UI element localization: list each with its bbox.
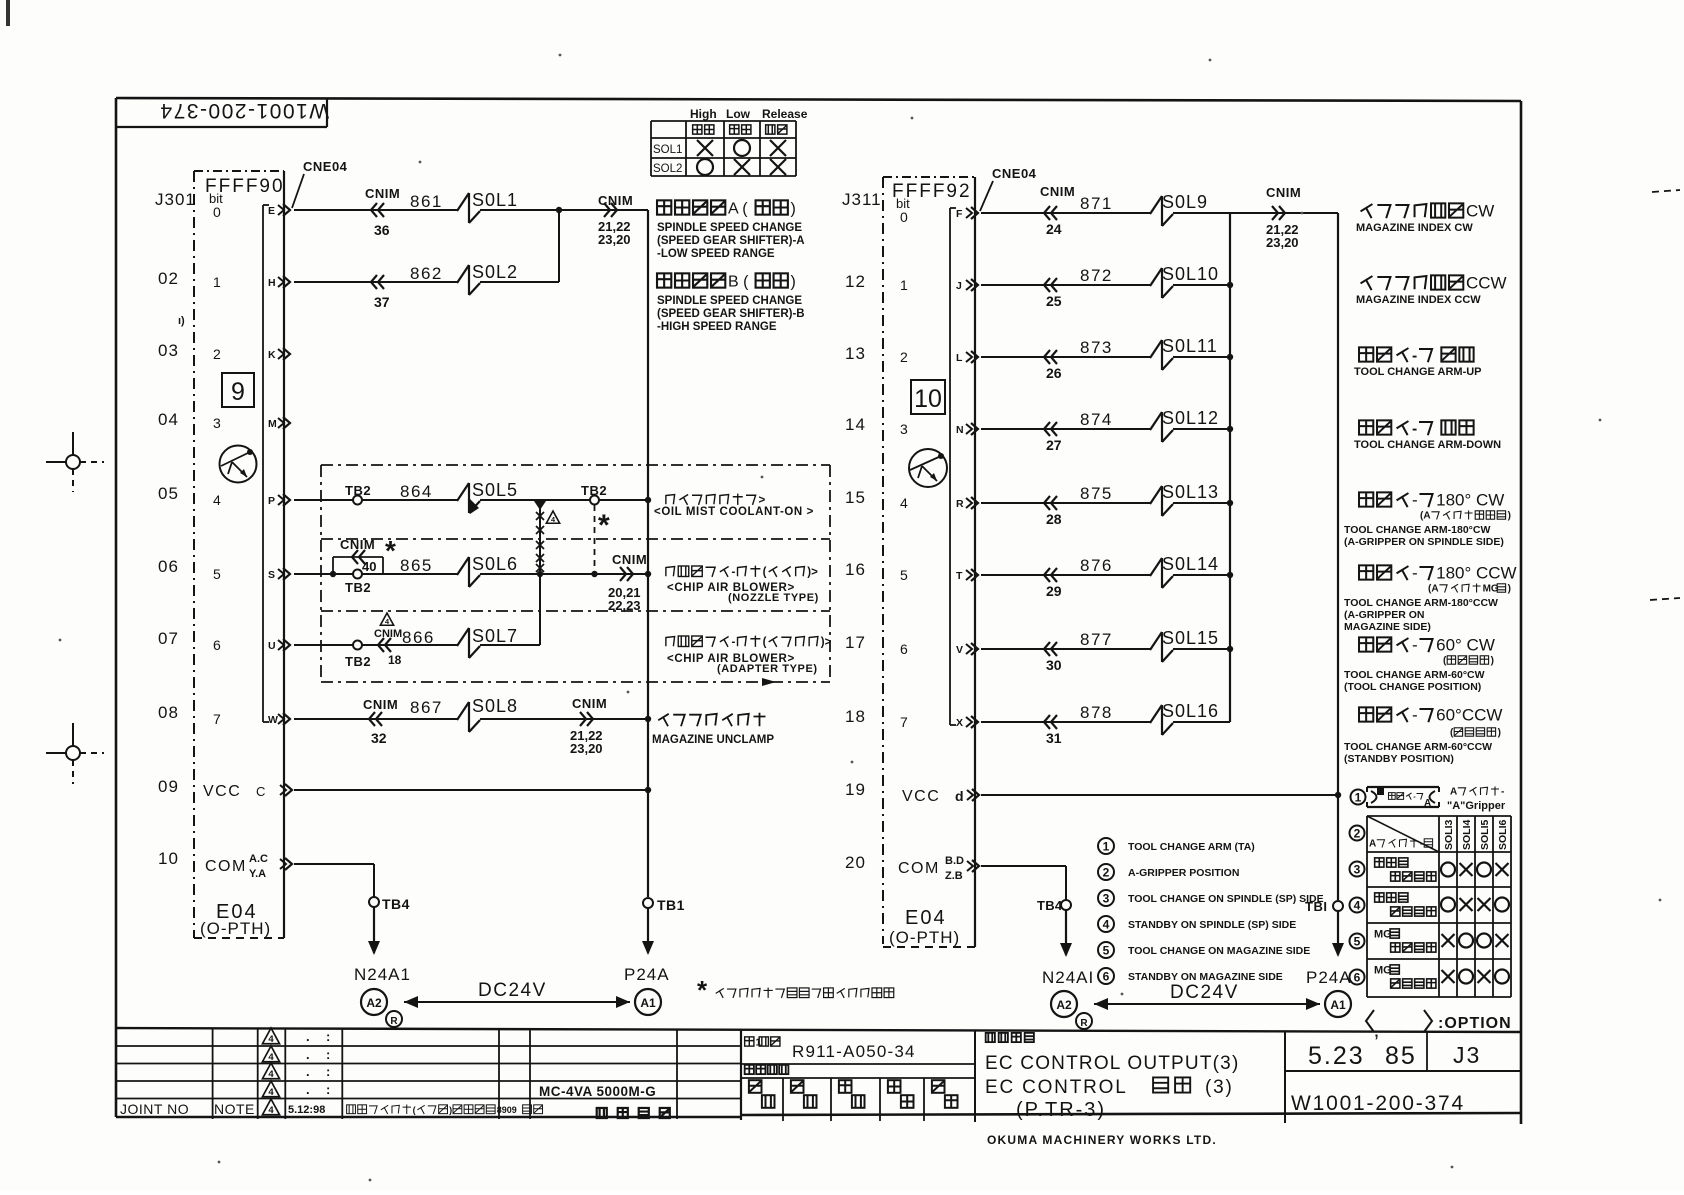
svg-text:SOL1: SOL1 [653,144,682,156]
pin W J301 [268,713,290,726]
svg-text:SOLI3: SOLI3 [1443,819,1455,850]
svg-text:E04: E04 [905,907,947,929]
svg-text:B.D: B.D [945,855,964,867]
solenoid SOL1 [457,190,518,223]
svg-text:40: 40 [362,559,376,574]
revision triangles [262,1028,330,1116]
node SOL6 stub [330,571,336,577]
svg-text:K: K [268,349,276,361]
svg-text:TOOL CHANGE ON MAGAZINE SIDE: TOOL CHANGE ON MAGAZINE SIDE [1128,945,1310,957]
svg-text:37: 37 [374,294,390,310]
label SOL2 spindle speed change B [657,273,805,333]
svg-text:877: 877 [1080,630,1113,649]
node SOL8-rail [645,716,651,722]
svg-text:875: 875 [1080,484,1113,503]
solenoid SOL11 [1150,336,1218,370]
svg-text:Low: Low [726,107,751,121]
terminal TB1 (left) [643,897,685,913]
terminal A2 (left) [361,989,387,1015]
wire SOL10 to rail [1173,282,1233,288]
svg-text:-: - [1420,839,1423,850]
pin P J301 [268,494,290,507]
wire pin to SOL10 [981,284,1150,286]
svg-text:EC CONTROL: EC CONTROL [985,1077,1128,1098]
solenoid SOL9 [1150,192,1208,226]
svg-text:180° CCW: 180° CCW [1436,563,1516,582]
option box (oil mist / chip air blower) [321,465,830,686]
svg-text:High: High [690,107,717,121]
svg-text:OKUMA MACHINERY WORKS LTD.: OKUMA MACHINERY WORKS LTD. [987,1133,1217,1147]
svg-text:3: 3 [1103,891,1110,905]
svg-text:CCW: CCW [1466,273,1507,292]
svg-text:SPINDLE SPEED CHANGE: SPINDLE SPEED CHANGE [657,295,802,307]
label SOL1 spindle speed change A [657,200,805,260]
pin E J301 [268,204,290,217]
terminal TB2 (SOL6) [345,570,371,596]
wire number 866 [402,628,435,647]
svg-text:CNIM: CNIM [363,697,398,712]
svg-text:5.12:98: 5.12:98 [288,1104,325,1116]
svg-text:E: E [268,205,275,217]
connector mark CNIM 24 (SOL9) [1040,184,1075,237]
svg-text:TOOL CHANGE ARM (TA): TOOL CHANGE ARM (TA) [1128,841,1255,853]
solenoid SOL16 [1150,701,1219,735]
connector J301 label [155,190,196,209]
svg-text:(O-PTH): (O-PTH) [200,919,271,938]
svg-text:STANDBY ON SPINDLE (SP) SIDE: STANDBY ON SPINDLE (SP) SIDE [1128,919,1296,931]
svg-text:A: A [1450,787,1457,798]
svg-text:6: 6 [900,641,908,657]
wire number 872 [1080,266,1113,285]
connector mark CNIM 40 (SOL6 aux) [333,535,396,574]
label SOL12 arm down [1354,420,1501,451]
svg-text:): ) [1508,584,1511,595]
wire TB1 to P24A arrow (right) [1332,911,1344,957]
connector key symbol (right) [909,449,947,487]
svg-text:4: 4 [268,1087,274,1098]
net N24A1 (right) [1042,968,1094,987]
node SOL5-rail [645,497,651,503]
wire SOL12 to rail [1173,426,1233,432]
svg-text:1: 1 [900,277,908,293]
svg-text:J3: J3 [1453,1042,1481,1068]
svg-text:DC24V: DC24V [478,980,547,1001]
svg-text:6: 6 [1103,969,1110,983]
pin H J301 [268,276,290,289]
svg-text::: : [326,1047,330,1062]
svg-text:>: > [759,495,766,507]
svg-text:Release: Release [762,107,808,121]
svg-text:): ) [791,200,796,217]
wire pin to SOL12 [981,428,1150,430]
svg-text:(SPEED GEAR SHIFTER)-B: (SPEED GEAR SHIFTER)-B [657,308,805,320]
wire SOL9 to rail [1173,212,1230,214]
svg-text:60° CW: 60° CW [1436,635,1495,654]
connector J311 label [842,190,882,209]
crossover marks x (SOL5-SOL6 tie) [534,501,546,645]
svg-text:TOOL CHANGE ARM-60°CW: TOOL CHANGE ARM-60°CW [1344,669,1485,681]
svg-text:871: 871 [1080,194,1113,213]
svg-text:A2: A2 [1056,998,1072,1012]
svg-text:2: 2 [213,346,221,362]
connector mark CNIM 20,21/22,23 (SOL6 out) [608,552,647,613]
connector block FFFF92 / E04 (O-PTH) right [883,177,975,947]
svg-text:-: - [1412,635,1418,654]
svg-text:(A: (A [1420,511,1431,522]
svg-text:23,20: 23,20 [570,741,603,756]
pin S J301 [268,568,290,581]
svg-text:*: * [697,975,708,1005]
svg-text:7: 7 [900,714,908,730]
terminal TB1 (right) [1305,899,1343,914]
svg-text:1: 1 [213,274,221,290]
rail P24A (right) [1335,213,1341,900]
connector mark CNIM 21,22/23,20 (right out) [1230,185,1338,250]
svg-text:SOLI4: SOLI4 [1461,819,1473,850]
svg-text:Z.B: Z.B [945,870,963,882]
pin J J311 [956,279,978,292]
svg-text:MG: MG [1374,928,1392,940]
svg-text:R911-A050-34: R911-A050-34 [792,1042,916,1061]
svg-text:COM: COM [205,858,247,875]
wire number 873 [1080,338,1113,357]
pin K J301 [268,348,290,361]
svg-text:MG: MG [1374,964,1392,976]
wire pin to SOL13 [981,502,1150,504]
mark (1) near J301 box [178,315,185,327]
svg-text:): ) [1508,511,1511,522]
svg-text:-HIGH SPEED RANGE: -HIGH SPEED RANGE [657,321,777,333]
svg-text:S0L11: S0L11 [1162,336,1218,356]
svg-text:-: - [1412,490,1418,509]
svg-text:.: . [306,1029,310,1044]
svg-text:5: 5 [1103,943,1110,957]
wire pin to SOL14 [981,574,1150,576]
svg-text:4: 4 [268,1034,274,1045]
registration mark left upper [46,432,104,492]
svg-text:)>: )> [821,637,832,649]
wire pin to SOL11 [981,356,1150,358]
drawing title cell [985,1031,1285,1123]
solenoid SOL6 [457,554,518,587]
svg-text:MG: MG [1483,584,1499,595]
svg-text:60°CCW: 60°CCW [1436,705,1502,724]
svg-text:(: ( [413,1105,416,1115]
sheet number 9 box [222,373,254,407]
wire SOL7 to crossover [480,644,540,646]
svg-text:-: - [732,637,736,649]
svg-text:CNIM: CNIM [340,537,375,552]
svg-text:17: 17 [845,633,866,652]
svg-text:A2: A2 [366,996,382,1010]
svg-text:CNIM: CNIM [365,186,400,201]
svg-text:TOOL CHANGE ARM-180°CCW: TOOL CHANGE ARM-180°CCW [1344,597,1498,609]
svg-text:S0L14: S0L14 [1162,554,1219,574]
svg-text:18: 18 [845,707,866,726]
svg-text:5: 5 [900,567,908,583]
solenoid SOL15 [1150,628,1219,662]
wire number 861 [410,192,443,211]
label SOL5 oil mist [654,494,814,518]
svg-text:02: 02 [158,269,179,288]
revision note row [120,1101,543,1117]
node SOL1/SOL2 junction [556,207,562,213]
svg-text:-LOW SPEED RANGE: -LOW SPEED RANGE [657,248,775,260]
date / sheet cell [1285,1030,1521,1071]
solenoid SOL7 [457,626,518,658]
rail P24A (left) [647,210,649,897]
svg-text:A-GRIPPER POSITION: A-GRIPPER POSITION [1128,867,1239,879]
svg-text:08: 08 [158,703,179,722]
wire pin H to SOL2 [294,281,457,283]
scan artifact top-left [6,0,10,26]
node SOL6 TB2-dash [591,571,597,577]
svg-text:85: 85 [1385,1042,1417,1070]
svg-text:S0L15: S0L15 [1162,628,1219,648]
svg-text:32: 32 [371,730,387,746]
svg-text:TB4: TB4 [382,896,410,912]
svg-text:NOTE: NOTE [214,1101,255,1117]
note asterisk oil-mist (bottom) [697,975,894,1005]
left row number 02 [158,269,179,868]
pin bracket J301 [263,205,269,722]
svg-text:16: 16 [845,560,866,579]
wire SOL15 to rail [1173,646,1233,652]
wire number 875 [1080,484,1113,503]
svg-text:CNIM: CNIM [598,193,633,208]
svg-text:06: 06 [158,557,179,576]
svg-text:31: 31 [1046,730,1062,746]
svg-text:TOOL CHANGE ARM-60°CCW: TOOL CHANGE ARM-60°CCW [1344,741,1492,753]
svg-text:(ADAPTER TYPE): (ADAPTER TYPE) [717,663,818,675]
svg-text:20: 20 [845,853,866,872]
svg-text:5: 5 [1354,934,1361,948]
svg-text:VCC: VCC [203,783,241,800]
svg-text:S0L13: S0L13 [1162,482,1219,502]
svg-text:4: 4 [1354,898,1361,912]
label CNE04 (right) [980,166,1037,211]
svg-text:CNE04: CNE04 [303,159,348,174]
label SOL16 arm 60 CCW [1344,705,1502,765]
svg-text:-: - [1412,347,1417,364]
svg-text:A.C: A.C [249,853,268,865]
registration dash right lower [1650,598,1680,600]
terminal A2 (right) [1051,991,1077,1017]
svg-text:27: 27 [1046,437,1062,453]
wire number 865 [400,556,433,575]
svg-text:N24A1: N24A1 [354,965,411,984]
connector block FFFF90 / E04 (O-PTH) [194,171,285,938]
connector mark CNIM 30 (SOL15) [1044,642,1062,673]
node SOL6 crossover [537,571,543,577]
pin M J301 [268,417,290,430]
svg-text:23,20: 23,20 [1266,235,1299,250]
svg-text:): ) [449,1105,452,1115]
sheet number 10 box [911,380,945,414]
svg-text:ı): ı) [178,315,185,327]
svg-text:TOOL CHANGE ARM-UP: TOOL CHANGE ARM-UP [1354,366,1482,378]
circled row numbers 2-6 [1350,826,1365,985]
svg-text:N: N [956,424,964,436]
gripper symbol A-gripper (note 1) [1351,787,1506,813]
svg-text:09: 09 [158,777,179,796]
svg-text:V: V [956,644,963,656]
terminal A1 (left) [635,989,661,1015]
terminal R (right) [1076,1013,1092,1029]
svg-text:N24AI: N24AI [1042,968,1094,987]
svg-text:0: 0 [900,209,908,225]
svg-text:4: 4 [1103,917,1110,931]
connector key symbol (left) [220,446,257,483]
svg-text:TB1: TB1 [657,897,685,913]
wire SOL11 to rail [1173,354,1233,360]
wire VCC d to rail (right) [981,794,1338,796]
svg-text::OPTION: :OPTION [1438,1015,1512,1032]
svg-text:J: J [956,280,962,292]
svg-text:3: 3 [1354,862,1361,876]
svg-text:CNIM: CNIM [1266,185,1301,200]
net P24A (right) [1306,968,1352,987]
pin A.C/Y.A (COM) J301 [280,858,292,870]
svg-text:10: 10 [914,385,942,413]
connector mark CNIM 18 (SOL7) [374,628,402,667]
svg-text:P: P [268,495,275,507]
svg-text:<OIL MIST COOLANT-ON >: <OIL MIST COOLANT-ON > [654,506,814,518]
svg-text:(: ( [763,567,767,579]
svg-text:L: L [956,352,963,364]
svg-text:1: 1 [1103,839,1110,853]
svg-text:865: 865 [400,556,433,575]
svg-text:’: ’ [1374,1030,1379,1055]
svg-text:*: * [385,535,396,566]
svg-text:(A-GRIPPER ON: (A-GRIPPER ON [1344,609,1425,621]
svg-text:H: H [268,277,276,289]
svg-text:-: - [1501,787,1504,798]
label DC24V (right) [1094,982,1320,1010]
solenoid SOL8 [457,696,518,732]
label SOL11 arm up [1354,347,1482,378]
wire SOL2 to SOL1 junction [480,210,559,282]
part number cell R911-A050-34 [741,1037,975,1078]
asterisk note (oil mist) [598,509,610,542]
svg-text::: : [326,1082,330,1097]
registration mark left lower [46,723,104,784]
pin d (VCC) J311 [967,789,979,801]
svg-text:CNE04: CNE04 [992,166,1037,181]
solenoid SOL13 [1150,482,1219,516]
svg-text:EC CONTROL OUTPUT(3): EC CONTROL OUTPUT(3) [985,1053,1239,1074]
svg-text:6: 6 [1354,970,1361,984]
svg-text:3: 3 [900,421,908,437]
wire number 876 [1080,556,1113,575]
svg-text:5: 5 [213,566,221,582]
svg-text:S0L16: S0L16 [1162,701,1219,721]
svg-text:): ) [1491,656,1494,667]
svg-text:(SPEED GEAR SHIFTER)-A: (SPEED GEAR SHIFTER)-A [657,235,805,247]
wire number 878 [1080,703,1113,722]
svg-text:.: . [306,1047,310,1062]
svg-text:36: 36 [374,222,390,238]
svg-text:VCC: VCC [902,788,940,805]
wire number 867 [410,698,443,717]
wire pin to SOL16 [981,721,1150,723]
drawing number box W1001-200-374 (rotated) [116,98,329,127]
wire SOL8 to rail [480,718,648,720]
applicable machine cell [539,1084,670,1118]
svg-text:CW: CW [1466,201,1494,220]
svg-text:S0L2: S0L2 [472,262,518,282]
svg-text:(A-GRIPPER ON SPINDLE SIDE): (A-GRIPPER ON SPINDLE SIDE) [1344,536,1504,548]
svg-text:(NOZZLE TYPE): (NOZZLE TYPE) [728,592,819,604]
svg-text:S0L7: S0L7 [472,626,518,646]
svg-text:861: 861 [410,192,443,211]
svg-text:867: 867 [410,698,443,717]
svg-text:29: 29 [1046,583,1062,599]
svg-text:TB2: TB2 [345,580,371,595]
connector mark CNIM 27 (SOL12) [1044,422,1062,453]
svg-text:C: C [256,784,265,799]
svg-text:.: . [306,1064,310,1079]
svg-text:U: U [268,640,276,652]
svg-text:23,20: 23,20 [598,232,631,247]
svg-text:J311: J311 [842,190,882,209]
svg-text:S0L6: S0L6 [472,554,518,574]
svg-text:A: A [1424,798,1431,809]
connector mark CNIM 31 (SOL16) [1044,715,1062,746]
svg-text:MAGAZINE UNCLAMP: MAGAZINE UNCLAMP [652,734,774,746]
svg-text:d: d [955,788,964,804]
note 5 TOOL CHANGE ON MAGAZINE SIDE [1098,942,1310,958]
svg-text:15: 15 [845,488,866,507]
title block grid [116,1028,1521,1120]
svg-text:JOINT NO: JOINT NO [120,1101,189,1117]
svg-text:COM: COM [898,860,940,877]
svg-text:8909: 8909 [497,1105,517,1115]
bus rail SOL9-SOL16 [1229,213,1231,722]
solenoid SOL10 [1150,264,1219,298]
label SOL13 arm 180 CW [1344,490,1511,548]
svg-text::: : [326,1029,330,1044]
svg-text:13: 13 [845,344,866,363]
label SOL14 arm 180 CCW [1344,563,1517,633]
net N24A1 (left) [354,965,411,984]
svg-text:X: X [956,717,963,729]
pin L J311 [956,351,978,364]
note 3 TOOL CHANGE ON SPINDLE (SP) SIDE [1098,890,1324,906]
svg-text:SOLI6: SOLI6 [1497,819,1509,850]
svg-text:S0L10: S0L10 [1162,264,1219,284]
svg-text:S0L5: S0L5 [472,480,518,500]
svg-text:S0L9: S0L9 [1162,192,1208,212]
svg-text:3: 3 [213,415,221,431]
terminal TB4 (left) [369,896,410,912]
terminal TB4 (right) [1037,898,1071,913]
svg-text:S0L12: S0L12 [1162,408,1219,428]
svg-text:30: 30 [1046,657,1062,673]
solenoid SOL12 [1150,408,1219,442]
svg-text:-: - [1412,420,1417,437]
pin X J311 [956,716,978,729]
svg-text:*: * [598,509,610,542]
svg-text:10: 10 [158,849,179,868]
svg-text:TB2: TB2 [345,654,371,669]
terminal TB2 (SOL5 left) [345,483,371,505]
svg-text:.: . [306,1082,310,1097]
svg-text:W: W [268,714,278,726]
svg-text:(O-PTH): (O-PTH) [889,928,960,947]
wire SOL5 to TB2/rail [480,499,648,501]
svg-text::: : [326,1064,330,1079]
